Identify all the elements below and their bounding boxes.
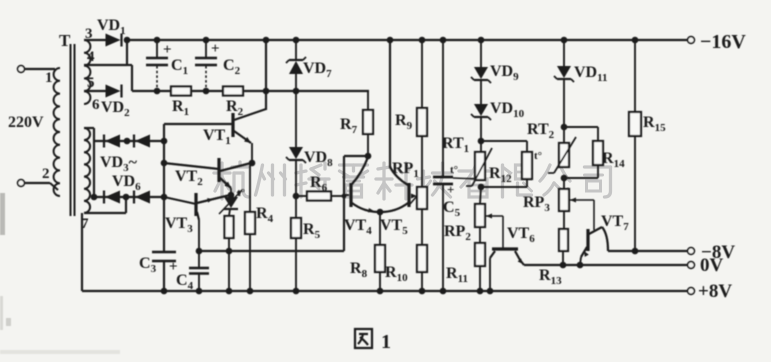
watermark text 杭州将睿科技有限公司: [214, 162, 611, 199]
svg-text:T: T: [59, 31, 71, 50]
svg-text:4: 4: [87, 49, 95, 65]
terminal -16V: [688, 37, 695, 44]
diode VD3: [94, 140, 164, 142]
resistor R13: [563, 211, 565, 229]
transistor VT5: [390, 167, 408, 185]
temperature compensation diode at VT2 emitter: [230, 188, 232, 196]
resistor R6: [296, 195, 307, 197]
capacitor C3: [152, 251, 176, 254]
transistor VT1: [164, 123, 233, 125]
terminal 0V: [688, 262, 695, 269]
wire R7 bottom to VT4 collector node: [344, 155, 368, 157]
wire emitters junction to R8: [377, 209, 384, 216]
zener diode VD10: [474, 104, 488, 116]
diode VD2: [120, 85, 122, 98]
capacitor C5: [442, 40, 444, 176]
resistor R8: [375, 245, 385, 272]
terminal +8V: [688, 288, 695, 295]
wire raw DC rail y91: [132, 90, 369, 92]
transformer T primary winding: [54, 68, 60, 196]
zener diode VD8: [295, 91, 297, 147]
svg-text:t°: t°: [534, 150, 542, 162]
svg-text:+: +: [163, 42, 172, 58]
resistor R3 (unlabeled): [229, 209, 230, 216]
svg-text:+8V: +8V: [698, 281, 732, 302]
transformer T primary terminal 1: [18, 66, 25, 73]
transistor VT4: [352, 157, 368, 184]
resistor R2: [223, 87, 243, 96]
svg-text:1: 1: [45, 70, 53, 86]
potentiometer RP2: [480, 187, 481, 204]
resistor R14: [564, 126, 598, 128]
wire vertical x344 node: [343, 156, 345, 251]
resistor R4: [249, 164, 251, 212]
svg-text:−16V: −16V: [700, 31, 746, 53]
transistor VT2: [164, 163, 219, 169]
wire 0V line: [524, 264, 688, 266]
svg-text:5: 5: [87, 75, 95, 91]
zener diode VD11: [563, 40, 565, 66]
wire -8V line: [608, 250, 688, 252]
transformer T core: [70, 44, 72, 216]
zener diode VD9: [480, 40, 482, 67]
svg-text:+: +: [211, 41, 220, 57]
transformer T primary terminal 2: [18, 180, 25, 187]
transistor VT3: [164, 197, 196, 204]
caption figure 1 glyph: [355, 329, 372, 348]
transformer secondary winding upper (taps 3-6): [84, 40, 90, 104]
wire base column x164: [163, 124, 165, 252]
resistor R10: [421, 209, 423, 245]
diode VD6: [133, 191, 135, 204]
resistor R5: [295, 196, 297, 218]
svg-text:t°: t°: [237, 187, 245, 199]
wire bridge left vertical: [93, 128, 95, 197]
svg-text:6: 6: [92, 97, 100, 113]
svg-text:2: 2: [42, 166, 50, 182]
svg-text:3: 3: [85, 26, 93, 42]
terminal -8V: [688, 248, 695, 255]
zener diode VD7: [295, 40, 297, 60]
resistor R15: [634, 40, 636, 112]
scan edge artifacts: [0, 193, 5, 235]
transformer secondary winding lower (tap 7): [84, 128, 90, 213]
svg-text:+: +: [447, 182, 454, 197]
resistor R7: [367, 91, 369, 110]
svg-text:−8V: −8V: [701, 242, 735, 263]
transistor VT7: [593, 200, 595, 230]
wire VD1 cathode junction to top rail and down-jog: [124, 37, 131, 44]
diode VD4: [133, 135, 135, 148]
transistor VT6: [502, 216, 504, 248]
resistor R11: [479, 227, 481, 243]
capacitor C2: [205, 40, 207, 57]
capacitor C4: [198, 251, 200, 268]
resistor R1: [171, 87, 191, 96]
potentiometer RP1: [417, 187, 427, 209]
thermistor RT1: [475, 152, 485, 180]
thermistor RT2: [559, 143, 569, 167]
wire node y251: [199, 250, 344, 252]
resistor R9: [421, 40, 423, 108]
diode VD1: [120, 34, 122, 47]
wire bridge mid to tap7 and +8V rail left drop: [125, 197, 127, 213]
capacitor C1: [156, 40, 158, 57]
resistor R12: [481, 140, 527, 142]
wire VT5 collector to top rail: [389, 40, 391, 168]
wire +8V rail: [82, 290, 688, 292]
svg-text:1: 1: [381, 331, 391, 353]
diode VD5: [94, 196, 164, 198]
wire VT1 collector to top rail: [265, 40, 267, 110]
potentiometer RP3: [563, 178, 565, 189]
wire top rail -16V: [127, 39, 688, 41]
svg-text:t°: t°: [450, 164, 458, 176]
svg-text:220V: 220V: [8, 114, 44, 131]
